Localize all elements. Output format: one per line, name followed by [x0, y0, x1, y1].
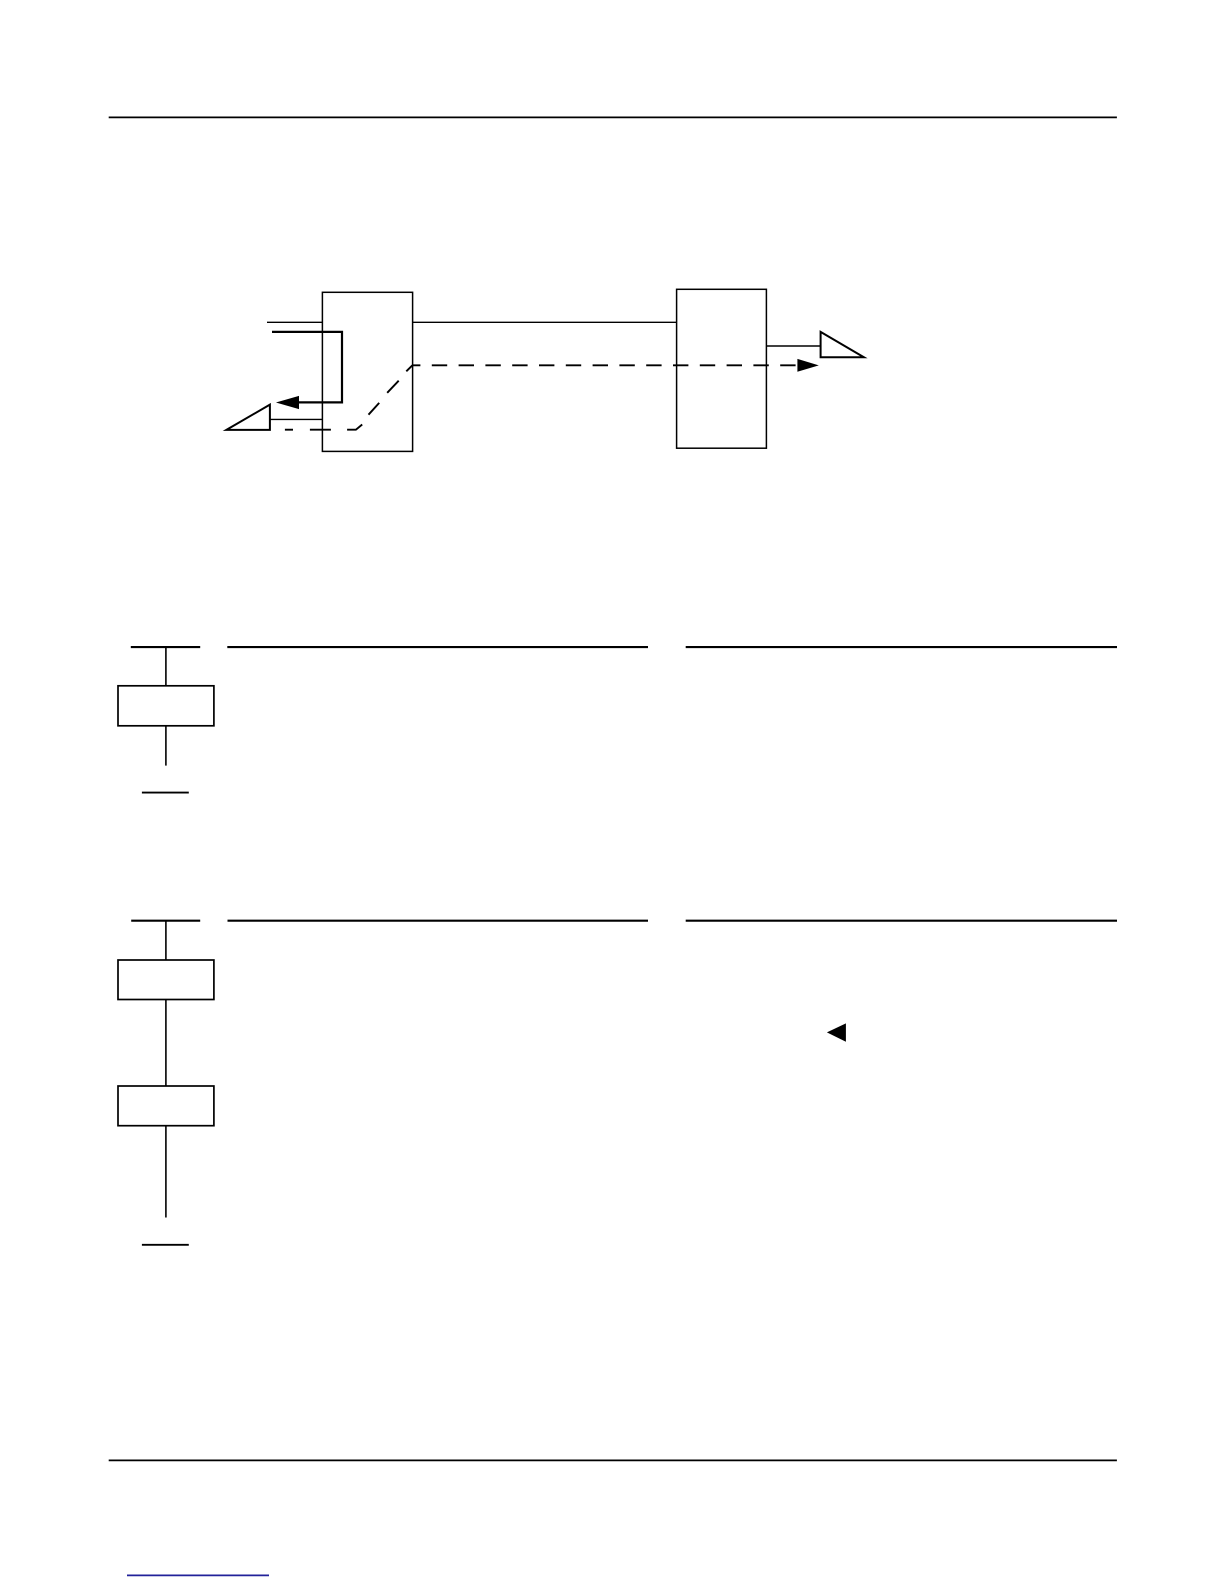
diagonal dash 1 [369, 403, 380, 415]
section B box 1 [118, 960, 214, 1000]
diagonal dash 3 [406, 365, 412, 371]
section A terminator bar [142, 792, 189, 794]
section B header rule left column [228, 920, 649, 922]
section A header rule left column [227, 646, 648, 648]
open triangle driver (left) [226, 405, 270, 430]
dashed wire U1 to arrow (through U2) [412, 364, 797, 366]
section A header rule right column [686, 646, 1117, 648]
filled arrowhead (left, pointing left) [276, 396, 299, 409]
wire U2 to right triangle [766, 345, 820, 347]
top header rule [109, 116, 1117, 118]
wire triangle to U1 [270, 418, 322, 420]
link underline (blue) [127, 1574, 269, 1576]
section B box 2 [118, 1086, 214, 1126]
box U1 (left block of figure) [322, 292, 412, 451]
box U2 (right block of figure) [677, 289, 767, 448]
wire U1 to U2 [413, 321, 677, 323]
section B wire down 2 [165, 1126, 167, 1218]
section B terminator bar [142, 1244, 189, 1246]
section B wire down [165, 921, 167, 960]
section B header rule right column [686, 920, 1117, 922]
section A header rule left stub [131, 646, 200, 648]
bottom footer rule [109, 1459, 1117, 1461]
section A box [118, 686, 214, 726]
dash segment 3 with bend [347, 425, 362, 430]
open triangle driver (right) [821, 332, 864, 357]
section B wire between boxes [165, 1000, 167, 1087]
section B header rule left stub [131, 920, 200, 922]
thick loopback wire [272, 332, 342, 403]
section A wire down 2 [165, 726, 167, 766]
dash segment 2 (bottom dashed stub) [310, 429, 331, 431]
filled arrowhead (right, pointing right) [797, 359, 818, 372]
diagonal dash 2 [387, 381, 399, 393]
dash segment 1 (bottom dashed stub) [285, 429, 293, 431]
section A wire down [165, 647, 167, 686]
wire input to U1 [267, 321, 322, 323]
bullet triangle (points left) [827, 1023, 846, 1041]
